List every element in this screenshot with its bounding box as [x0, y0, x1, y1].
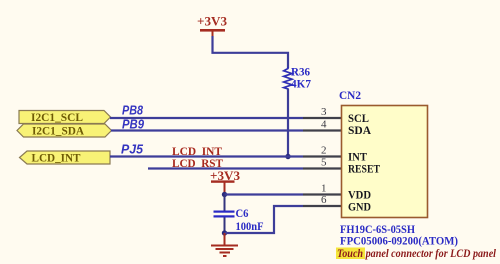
svg-text:+3V3: +3V3	[197, 14, 228, 29]
pin 5	[303, 157, 341, 169]
wire SDA	[111, 129, 303, 131]
svg-text:3: 3	[321, 106, 327, 118]
port LCD_INT	[20, 151, 111, 165]
junction dot INT	[285, 154, 290, 159]
pin 3	[303, 106, 341, 118]
ground	[211, 233, 238, 257]
svg-text:I2C1_SDA: I2C1_SDA	[32, 124, 84, 138]
svg-text:C6: C6	[236, 206, 249, 220]
pin 2	[303, 145, 341, 157]
wire VDD	[225, 193, 304, 195]
svg-text:4K7: 4K7	[291, 77, 311, 91]
wire GND to pin 6	[225, 206, 304, 233]
port I2C1_SCL	[19, 110, 111, 124]
pin 6	[303, 194, 341, 206]
capacitor C6	[214, 195, 264, 234]
connector CN2	[339, 88, 428, 218]
pin 4	[303, 119, 341, 131]
power +3V3 top	[197, 14, 228, 38]
svg-text:Touch panel connector for LCD: Touch panel connector for LCD panel	[337, 246, 497, 260]
junction dot VDD	[222, 192, 227, 197]
svg-text:RESET: RESET	[348, 162, 380, 176]
svg-text:4: 4	[321, 119, 327, 131]
wire +3V3 to R36	[213, 36, 289, 68]
svg-text:100nF: 100nF	[236, 219, 264, 233]
svg-text:2: 2	[321, 145, 327, 157]
svg-text:SDA: SDA	[348, 123, 371, 137]
svg-text:PB8: PB8	[122, 104, 143, 118]
svg-text:5: 5	[321, 157, 327, 169]
wire R36 to INT net	[287, 89, 289, 157]
svg-text:1: 1	[321, 183, 327, 195]
wire INT	[110, 155, 303, 157]
svg-text:PJ5: PJ5	[121, 143, 144, 157]
wire RESET	[148, 167, 303, 169]
svg-text:6: 6	[321, 194, 327, 206]
resistor R36	[284, 65, 311, 91]
wire SCL	[110, 117, 303, 119]
power +3V3 lower	[210, 168, 241, 194]
svg-text:I2C1_SCL: I2C1_SCL	[31, 110, 83, 124]
port I2C1_SDA	[17, 124, 112, 138]
junction dot GND	[222, 230, 227, 235]
caption Touch panel connector for LCD panel	[336, 246, 497, 260]
svg-text:GND: GND	[348, 200, 371, 214]
svg-text:LCD_INT: LCD_INT	[32, 151, 81, 165]
pin 1	[303, 183, 341, 195]
svg-text:CN2: CN2	[339, 88, 361, 102]
